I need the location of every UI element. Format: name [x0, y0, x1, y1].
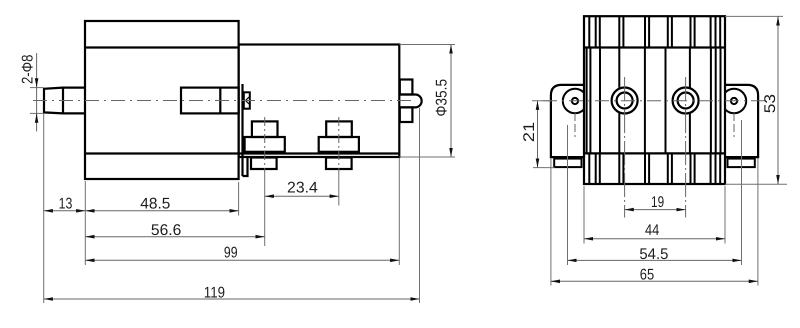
- port circle 1: [612, 88, 638, 114]
- svg-text:53: 53: [762, 94, 779, 113]
- motor body: [85, 21, 239, 179]
- inner shaft in motor: [181, 88, 239, 114]
- right mounting ear: [722, 85, 758, 167]
- svg-text:19: 19: [651, 194, 664, 211]
- extension lines (left view): [30, 45, 455, 304]
- svg-text:23.4: 23.4: [287, 180, 318, 197]
- svg-text:56.6: 56.6: [151, 222, 181, 239]
- circle 1 vertical centerline: [624, 77, 626, 218]
- centerline (left view axis): [33, 100, 413, 102]
- dimension 13: [44, 196, 86, 213]
- rib fins: middle band: [587, 48, 721, 154]
- body horizontal lines: [584, 48, 725, 154]
- motor body inner flange line bottom: [85, 152, 239, 154]
- svg-text:119: 119: [204, 284, 225, 301]
- port circle 2: [673, 88, 699, 114]
- dimension 56.6: [85, 222, 264, 239]
- svg-text:54.5: 54.5: [639, 246, 668, 263]
- foot B center dash: [338, 117, 340, 173]
- left shaft: [44, 88, 85, 114]
- outlet port flange: [400, 80, 422, 123]
- coupling boss: [244, 92, 250, 108]
- cylinder inner left line: [241, 84, 243, 176]
- dimension 53: [762, 16, 779, 184]
- rib fins: top band: [589, 16, 720, 47]
- dimension 44: [584, 222, 725, 239]
- pump cylinder body: [239, 45, 400, 158]
- cylinder plate line: [239, 152, 400, 154]
- dimension 99: [85, 245, 399, 262]
- dimension 2-phi8: [19, 53, 36, 132]
- extension lines (right view): [532, 16, 787, 285]
- svg-text:21: 21: [521, 122, 538, 142]
- rib fins: bottom band: [589, 153, 720, 184]
- dimension phi35.5: [434, 45, 451, 158]
- dimension 65: [551, 267, 758, 284]
- ear hole center dashes: [574, 113, 576, 137]
- svg-text:Φ35.5: Φ35.5: [434, 79, 451, 117]
- svg-text:2-Φ8: 2-Φ8: [19, 55, 36, 85]
- dimension 54.5: [568, 246, 742, 263]
- svg-text:99: 99: [224, 245, 238, 262]
- dimension 23.4: [265, 180, 339, 197]
- nozzle: [400, 95, 422, 108]
- left mounting ear: [551, 85, 587, 167]
- svg-text:48.5: 48.5: [140, 196, 170, 213]
- foot A center dash: [264, 117, 266, 173]
- dimension 48.5: [85, 196, 238, 213]
- dimension 119: [44, 284, 420, 301]
- circle 2 vertical centerline: [685, 77, 687, 218]
- right view horizontal centerline: [543, 100, 766, 102]
- foot A (left view): [245, 121, 285, 169]
- plate corner notch: [243, 157, 248, 176]
- dimension 21: [521, 101, 538, 168]
- svg-text:44: 44: [645, 222, 660, 239]
- pump body front: [584, 16, 725, 184]
- svg-text:13: 13: [59, 196, 73, 213]
- svg-text:65: 65: [640, 267, 654, 284]
- foot B (left view): [319, 121, 359, 169]
- motor body inner flange line top: [85, 46, 239, 48]
- dimension 19: [625, 194, 686, 211]
